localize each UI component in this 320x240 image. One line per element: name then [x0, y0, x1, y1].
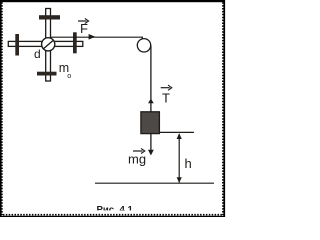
h dimension arrow [178, 134, 180, 183]
vector arrow over T [161, 87, 170, 89]
mass m block [141, 112, 160, 134]
svg-text:h: h [185, 156, 192, 171]
svg-text:d: d [34, 47, 41, 61]
level line at mass bottom [159, 131, 194, 133]
horizontal rod of cross [8, 41, 83, 46]
spindle diagonal hatch [44, 40, 54, 48]
vertical rod of cross [46, 9, 51, 82]
weight m0 bottom bar [37, 72, 57, 76]
frame top solid border [0, 0, 225, 2]
svg-text:o: o [67, 71, 71, 80]
svg-text:Рис. 4.1: Рис. 4.1 [97, 204, 134, 215]
weight m0 right bar [73, 32, 77, 53]
string corner at pulley [141, 37, 143, 41]
vector arrow over F [78, 20, 87, 22]
weight m0 top bar [39, 15, 60, 19]
frame right solid border [223, 0, 225, 217]
pulley [137, 39, 150, 52]
mg arrow down from mass [150, 134, 152, 151]
svg-text:T: T [162, 91, 170, 106]
spindle pulley circle d [42, 38, 55, 51]
white mask cutting caption bottom [90, 210, 150, 213]
frame left dotted border [0, 0, 2, 217]
string from pulley to mass [150, 45, 152, 112]
string from spindle to pulley [50, 36, 143, 38]
frame bottom dotted border [0, 215, 225, 217]
weight m0 left bar [15, 34, 19, 56]
arrowhead of F on string [89, 34, 96, 40]
svg-text:F: F [80, 21, 88, 36]
ground line [95, 182, 214, 184]
svg-text:mg: mg [128, 152, 146, 167]
vector arrow over mg [133, 150, 143, 152]
arrowhead of T on string [148, 99, 154, 104]
